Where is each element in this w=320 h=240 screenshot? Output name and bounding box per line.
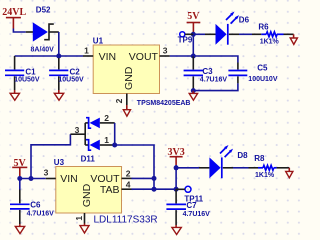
junction C3 bottom / ground — [191, 88, 196, 93]
wire D11 cathodes vertical — [114, 123, 116, 145]
wire U1 pin3 to 5V node — [170, 55, 194, 57]
svg-text:1: 1 — [74, 216, 84, 221]
svg-text:D11: D11 — [81, 155, 96, 164]
resistor R8 1K 1% — [254, 154, 289, 179]
wire D6 to R6 — [239, 33, 252, 35]
power port 5V (bottom) — [12, 158, 27, 177]
svg-text:TPSM84205EAB: TPSM84205EAB — [137, 100, 191, 107]
svg-text:U1: U1 — [93, 37, 104, 46]
svg-text:D8: D8 — [237, 151, 248, 160]
ground under C6 — [15, 224, 24, 234]
svg-text:TAB: TAB — [100, 184, 120, 196]
regulator U1 TPSM84205EAB — [93, 37, 160, 94]
svg-text:4.7U16V: 4.7U16V — [200, 76, 228, 83]
ground under C3 — [189, 91, 197, 101]
svg-text:C2: C2 — [70, 68, 81, 77]
svg-text:U3: U3 — [54, 158, 65, 167]
diode D52 (schottky 8A/40V) — [26, 6, 59, 54]
regulator U3 LDL1117S33R — [54, 158, 122, 213]
U3 pin 3 (VIN) — [44, 167, 56, 178]
capacitor C1 10U50V — [5, 56, 40, 90]
capacitor C2 10U50V — [49, 58, 84, 90]
junction 3V3/D8 — [174, 165, 179, 170]
capacitor C7 4.7U16V — [166, 189, 210, 225]
wire VIN rail — [15, 55, 83, 57]
svg-text:C7: C7 — [186, 201, 197, 210]
svg-text:3: 3 — [163, 46, 168, 56]
svg-text:GND: GND — [81, 183, 93, 207]
ground after R6 — [290, 34, 297, 44]
dual diode D11 — [70, 118, 114, 164]
svg-text:3: 3 — [44, 167, 49, 177]
capacitor C6 4.7U16V — [10, 179, 54, 225]
power port 3V3 — [167, 147, 184, 165]
ground after R8 — [286, 168, 293, 178]
svg-text:5V: 5V — [187, 11, 200, 22]
svg-text:10U50V: 10U50V — [58, 77, 84, 84]
wire 5V to U3 VIN — [20, 177, 46, 179]
svg-text:VIN: VIN — [60, 173, 78, 185]
U3 pin 1 (GND) — [74, 213, 85, 224]
resistor R6 1K 1% — [258, 22, 293, 45]
svg-text:TP9: TP9 — [178, 35, 193, 44]
svg-text:100U10V: 100U10V — [248, 76, 278, 83]
U3 pin 4 (TAB) — [122, 180, 132, 190]
svg-text:C6: C6 — [30, 201, 41, 210]
test point TP9 — [178, 32, 194, 45]
U1 pin 3 — [160, 46, 170, 57]
svg-text:2: 2 — [114, 98, 124, 103]
junction D11 output — [112, 143, 117, 148]
junction TAB pin4 — [152, 187, 157, 192]
capacitor C3 4.7U16V — [184, 56, 228, 91]
ground under C2 — [54, 90, 63, 100]
svg-text:D6: D6 — [239, 15, 250, 24]
LED D6 — [193, 12, 249, 45]
wire top rail to C5 — [193, 56, 238, 63]
svg-text:LDL1117S33R: LDL1117S33R — [94, 215, 158, 226]
junction 5V/TP9/D6 — [191, 32, 196, 37]
wire D52 cathode down to VIN rail — [58, 32, 60, 56]
svg-text:C5: C5 — [257, 64, 268, 73]
wire 3V3 vertical — [175, 165, 177, 189]
capacitor C5 100U10V — [228, 63, 277, 84]
power port 5V (top) — [187, 11, 201, 34]
wire 24VL to D52 anode — [13, 29, 25, 33]
ground under U3 pin 1 — [80, 224, 89, 234]
svg-text:1K1%: 1K1% — [260, 38, 280, 45]
junction at D52/C2/rail — [56, 54, 61, 59]
wire VOUT pin2 to vertical — [132, 177, 155, 179]
ground under U1 pin 2 — [123, 105, 130, 116]
junction 5V rail / C3 — [191, 54, 196, 59]
junction D11 branch — [29, 176, 34, 181]
svg-text:4: 4 — [126, 180, 131, 190]
wire D11 branch from VIN node — [31, 134, 70, 178]
U1 pin 2 (GND) — [114, 94, 127, 106]
svg-text:1K1%: 1K1% — [255, 172, 275, 179]
svg-text:8A/40V: 8A/40V — [31, 47, 55, 54]
svg-text:C1: C1 — [25, 68, 36, 77]
svg-text:1: 1 — [84, 46, 89, 56]
wire to 3V3 node — [154, 188, 176, 190]
svg-text:4.7U16V: 4.7U16V — [27, 210, 55, 217]
junction TP11/C7 — [174, 187, 179, 192]
svg-text:VOUT: VOUT — [129, 51, 159, 63]
svg-text:GND: GND — [123, 66, 135, 90]
wire D8 to R8 — [233, 167, 249, 169]
wire TAB pin4 to vertical — [132, 188, 155, 190]
svg-text:4.7U16V: 4.7U16V — [183, 211, 211, 218]
svg-text:24VL: 24VL — [2, 7, 26, 18]
test point TP11 — [176, 186, 204, 203]
wire 5V node vertical — [192, 34, 194, 56]
power port 24VL — [2, 7, 26, 29]
junction VOUT pin2 — [152, 176, 157, 181]
svg-text:1: 1 — [104, 135, 109, 145]
wire D11 to VOUT node — [115, 145, 154, 189]
svg-text:VIN: VIN — [99, 51, 117, 63]
LED D8 — [176, 145, 248, 178]
ground under C1 — [10, 90, 19, 100]
junction 5V/C6 — [17, 176, 22, 181]
svg-text:R8: R8 — [254, 154, 265, 163]
U3 pin 2 (VOUT) — [122, 168, 132, 178]
svg-text:10U50V: 10U50V — [14, 77, 40, 84]
svg-text:3: 3 — [75, 125, 80, 135]
svg-text:D52: D52 — [36, 6, 51, 15]
wire C5 bottom to C3 bottom — [193, 83, 238, 90]
U1 pin 1 — [83, 46, 93, 56]
svg-text:2: 2 — [126, 168, 131, 178]
svg-text:2: 2 — [104, 113, 109, 123]
svg-text:R6: R6 — [258, 22, 269, 31]
ground under C7 — [172, 225, 181, 235]
svg-text:C3: C3 — [202, 67, 213, 76]
